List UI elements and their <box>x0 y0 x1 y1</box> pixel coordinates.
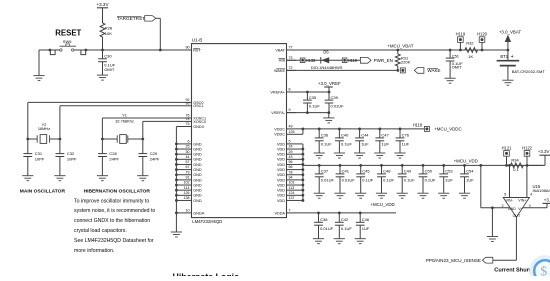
svg-text:system noise, it is recommende: system noise, it is recommended to <box>74 208 155 214</box>
svg-text:HIBERNATION OSCILLATOR: HIBERNATION OSCILLATOR <box>84 188 151 194</box>
resistor R34 <box>511 158 524 173</box>
pin 92 OSC0 <box>182 98 204 105</box>
svg-text:C37: C37 <box>321 169 329 174</box>
svg-text:OSC1: OSC1 <box>193 104 203 108</box>
svg-text:C44: C44 <box>361 133 369 138</box>
svg-text:75: 75 <box>186 122 190 126</box>
svg-text:C39: C39 <box>331 95 339 100</box>
svg-text:C50: C50 <box>425 169 433 174</box>
svg-text:72: 72 <box>289 66 293 70</box>
svg-text:PWR_EN: PWR_EN <box>374 58 393 63</box>
power +3.3V (shunt) <box>527 149 550 165</box>
svg-text:GND: GND <box>193 189 202 193</box>
svg-text:C49: C49 <box>404 169 412 174</box>
svg-text:BAT-CR2032-SMT: BAT-CR2032-SMT <box>512 69 546 74</box>
svg-text:H120: H120 <box>477 32 488 37</box>
svg-text:91: 91 <box>186 175 190 179</box>
wire OUT <box>493 217 517 260</box>
svg-text:+3.0_VREF: +3.0_VREF <box>318 81 341 86</box>
wire +MCU_VBAT <box>287 43 508 50</box>
wire HIB <box>287 59 361 61</box>
svg-text:$: $ <box>540 265 547 276</box>
svg-text:24: 24 <box>289 145 293 149</box>
svg-text:0.1UF: 0.1UF <box>362 177 373 182</box>
svg-text:0.1UF: 0.1UF <box>383 177 394 182</box>
svg-text:94: 94 <box>289 175 293 179</box>
svg-text:137: 137 <box>289 196 295 200</box>
svg-text:79: 79 <box>186 170 190 174</box>
svg-text:VDD: VDD <box>277 173 285 177</box>
svg-text:67: 67 <box>186 165 190 169</box>
crystal Y1 <box>102 113 142 144</box>
svg-text:connect GNDX to the hibernatio: connect GNDX to the hibernation <box>74 218 150 224</box>
svg-text:C54: C54 <box>466 169 474 174</box>
svg-text:77: 77 <box>289 46 293 50</box>
pin 126 VDDC <box>274 130 296 137</box>
svg-text:101: 101 <box>289 181 295 185</box>
svg-text:0.01UF: 0.01UF <box>342 177 356 182</box>
svg-text:GND: GND <box>193 168 202 172</box>
svg-text:0.1: 0.1 <box>513 167 519 172</box>
svg-text:74: 74 <box>186 117 190 121</box>
svg-text:1K: 1K <box>468 54 473 59</box>
ground (op-amp) <box>487 237 498 242</box>
capacitor C32 <box>56 139 78 175</box>
crystal Y2 <box>28 122 60 144</box>
svg-text:C46: C46 <box>362 217 370 222</box>
svg-text:0.1UF: 0.1UF <box>341 226 352 231</box>
power +3.0_VREF <box>318 81 341 92</box>
svg-text:0.1UF: 0.1UF <box>309 104 320 109</box>
svg-text:VDD: VDD <box>277 142 285 146</box>
svg-text:29: 29 <box>289 150 293 154</box>
svg-text:VBAT: VBAT <box>275 48 285 52</box>
capacitor C42 <box>334 213 353 244</box>
svg-text:DIO-1N4448HWS: DIO-1N4448HWS <box>311 65 343 70</box>
svg-text:1UF: 1UF <box>362 226 370 231</box>
svg-text:C36: C36 <box>321 133 329 138</box>
svg-text:H119: H119 <box>456 32 466 37</box>
pins VDD (right) <box>277 140 296 203</box>
ground (VREFA-) <box>323 118 334 123</box>
svg-text:C28: C28 <box>109 151 117 156</box>
capacitor C41 <box>334 165 355 198</box>
svg-text:VDD: VDD <box>277 168 285 172</box>
svg-text:4: 4 <box>530 192 532 196</box>
capacitor C53 <box>438 165 453 198</box>
svg-text:0.01UF: 0.01UF <box>331 104 345 109</box>
pin 77 VBAT <box>275 46 296 53</box>
svg-text:GND: GND <box>193 178 202 182</box>
svg-text:7: 7 <box>289 209 291 213</box>
svg-text:1UF: 1UF <box>445 177 453 182</box>
diode D6 <box>311 50 343 71</box>
svg-text:VDDA: VDDA <box>274 211 285 215</box>
svg-text:more information.: more information. <box>74 248 114 254</box>
svg-text:220K: 220K <box>401 60 411 65</box>
svg-text:30: 30 <box>186 150 190 154</box>
svg-text:VDD: VDD <box>277 153 285 157</box>
svg-text:25: 25 <box>186 145 190 149</box>
wire WAKE <box>287 69 400 72</box>
svg-text:VDDC: VDDC <box>274 133 285 137</box>
svg-text:3: 3 <box>529 204 531 208</box>
marker H122 <box>522 145 533 165</box>
svg-text:0.1UF: 0.1UF <box>341 141 352 146</box>
svg-text:To improve oscillator immunity: To improve oscillator immunity to <box>74 198 149 204</box>
pin 9 VREFA- <box>271 108 296 115</box>
svg-text:VREFA+: VREFA+ <box>270 90 285 94</box>
capacitor C40 <box>334 129 353 158</box>
svg-text:D6: D6 <box>323 50 329 55</box>
svg-text:90: 90 <box>186 46 190 50</box>
svg-text:INA198AIDCKV: INA198AIDCKV <box>533 188 550 193</box>
svg-text:GNDX: GNDX <box>193 125 204 129</box>
svg-text:5: 5 <box>504 192 506 196</box>
flag PWR_EN <box>360 57 392 63</box>
capacitor C30 <box>98 50 116 75</box>
svg-text:VDD: VDD <box>277 199 285 203</box>
switch SW6 <box>50 39 85 54</box>
label MAIN OSCILLATOR <box>20 188 66 194</box>
svg-text:C35: C35 <box>309 95 317 100</box>
svg-text:VDDC: VDDC <box>274 127 285 131</box>
svg-text:24PF: 24PF <box>150 157 160 162</box>
pin 72 WAKE <box>274 66 296 73</box>
svg-text:H121: H121 <box>502 145 513 150</box>
svg-text:56: 56 <box>289 160 293 164</box>
svg-text:PP0/AIN23_MCU_ISENSE: PP0/AIN23_MCU_ISENSE <box>426 258 481 263</box>
svg-text:6: 6 <box>188 140 190 144</box>
watermark logo <box>529 255 550 281</box>
pin 8 VREFA+ <box>270 88 296 95</box>
capacitor C45 <box>355 165 374 198</box>
svg-text:WAKE: WAKE <box>274 69 286 73</box>
svg-text:43: 43 <box>289 155 293 159</box>
label HIBERNATION OSCILLATOR <box>84 188 151 194</box>
resistor R32 <box>465 40 478 59</box>
svg-text:U1-B: U1-B <box>192 38 202 43</box>
resistor R31 <box>395 50 410 70</box>
capacitor C44 <box>354 129 369 158</box>
svg-text:+3.3V: +3.3V <box>544 198 550 203</box>
flag TARGETRST <box>117 16 160 50</box>
svg-text:+3.0_VBAT: +3.0_VBAT <box>499 29 522 34</box>
svg-text:VDD: VDD <box>277 189 285 193</box>
svg-text:GND: GND <box>193 158 202 162</box>
wire VIN+ <box>527 165 532 197</box>
capacitor C46 <box>355 213 370 244</box>
wire +MCU_VDD (VDDA) rail <box>296 202 396 215</box>
svg-text:5: 5 <box>289 140 291 144</box>
capacitor C48 <box>376 165 395 198</box>
flag MCU_ISENSE <box>426 257 493 263</box>
marker H116 <box>342 58 358 63</box>
svg-text:C30: C30 <box>104 53 112 58</box>
junction dots RESET <box>49 49 162 52</box>
svg-text:1UF: 1UF <box>402 141 410 146</box>
capacitor C36 <box>314 129 333 158</box>
battery BT1 <box>497 50 546 80</box>
svg-text:GND: GND <box>193 183 202 187</box>
marker H121 <box>502 145 513 165</box>
capacitor C47 <box>374 129 389 158</box>
svg-text:MAIN OSCILLATOR: MAIN OSCILLATOR <box>20 188 66 194</box>
svg-text:57: 57 <box>186 160 190 164</box>
svg-text:GND: GND <box>193 199 202 203</box>
svg-text:124: 124 <box>289 191 295 195</box>
svg-text:VIN-: VIN- <box>506 199 514 203</box>
pin 93 OSC1 <box>182 101 204 108</box>
svg-text:C42: C42 <box>341 217 349 222</box>
svg-text:XOSC0: XOSC0 <box>193 120 206 124</box>
svg-text:9: 9 <box>289 108 291 112</box>
svg-text:V+: V+ <box>518 207 523 211</box>
svg-text:+MCU_VDDC: +MCU_VDDC <box>434 126 461 131</box>
svg-text:R28: R28 <box>105 26 113 31</box>
svg-text:+: + <box>511 54 514 60</box>
label RESET <box>55 28 81 37</box>
capacitor C50 <box>417 165 436 198</box>
capacitor C37 <box>314 165 335 198</box>
svg-text:1UF: 1UF <box>466 177 474 182</box>
capacitor C29 <box>138 139 160 175</box>
wire XOSC0 <box>143 121 182 139</box>
capacitor C39 <box>325 92 344 113</box>
wire +MCU_VDD rail <box>303 158 543 166</box>
pin 7 VDDA <box>274 209 296 216</box>
svg-text:VDD: VDD <box>277 183 285 187</box>
power +3.0_VBAT <box>499 29 522 50</box>
marker H120 <box>477 32 488 50</box>
svg-text:VDD: VDD <box>277 194 285 198</box>
wire +MCU_VDDC rail <box>296 127 424 134</box>
svg-text:OMIT: OMIT <box>104 67 115 72</box>
capacitor C76 <box>394 129 409 158</box>
svg-text:C45: C45 <box>362 169 370 174</box>
svg-text:VDD: VDD <box>277 158 285 162</box>
wire VIN- <box>504 164 511 198</box>
svg-text:113: 113 <box>289 186 295 190</box>
op-amp U15 <box>503 184 550 218</box>
wire op-amp GND (pin 2) <box>481 165 510 236</box>
svg-text:RST: RST <box>193 48 201 52</box>
wire VDD bus <box>296 144 304 202</box>
svg-text:73: 73 <box>289 56 293 60</box>
svg-text:0.1UF: 0.1UF <box>425 177 436 182</box>
ground (C32) <box>54 176 65 181</box>
capacitor C49 <box>397 165 416 198</box>
svg-text:H116: H116 <box>348 58 358 63</box>
svg-text:VDD: VDD <box>277 147 285 151</box>
pin 75 GNDX <box>182 122 205 129</box>
svg-text:+MCU_VBAT: +MCU_VBAT <box>387 43 413 48</box>
capacitor C31 <box>23 139 45 175</box>
wire VREFA- <box>287 111 331 117</box>
svg-text:10K: 10K <box>105 31 112 36</box>
op-amp U1-B (MCU IC body) <box>192 38 287 225</box>
capacitor C38 <box>313 213 334 244</box>
svg-text:C40: C40 <box>341 133 349 138</box>
svg-text:GND: GND <box>193 153 202 157</box>
wire RESET net <box>39 50 182 75</box>
svg-text:VDD: VDD <box>277 163 285 167</box>
ground (C29) <box>137 176 148 181</box>
svg-text:C76: C76 <box>402 133 410 138</box>
ground (C30) <box>97 75 108 80</box>
svg-text:SW6: SW6 <box>63 39 72 44</box>
svg-text:C41: C41 <box>342 169 350 174</box>
marker WAKE pad <box>400 68 405 73</box>
node XOSC junctions <box>101 138 144 141</box>
svg-text:93: 93 <box>186 101 190 105</box>
svg-text:TARGETRST: TARGETRST <box>117 16 145 21</box>
svg-text:GNDA: GNDA <box>193 211 204 215</box>
svg-text:R34: R34 <box>511 158 519 163</box>
label Current Shunt <box>494 268 532 274</box>
ground (chip GND bus) <box>171 232 182 237</box>
wire XOSC1 <box>102 118 182 139</box>
svg-text:44: 44 <box>186 155 190 159</box>
wire VREFA+ <box>287 91 331 94</box>
wire GND bus <box>175 127 182 232</box>
svg-text:Hibernate Logic: Hibernate Logic <box>173 272 240 276</box>
svg-text:VREFA-: VREFA- <box>271 111 285 115</box>
svg-text:0.01UF: 0.01UF <box>321 177 335 182</box>
svg-text:C32: C32 <box>67 151 75 156</box>
ground (C28) <box>97 176 108 181</box>
ground (reset switch) <box>33 76 44 81</box>
svg-text:See LM4F232H5QD Datasheet for: See LM4F232H5QD Datasheet for <box>74 238 154 244</box>
capacitor C28 <box>98 139 120 175</box>
svg-text:+3.3V: +3.3V <box>538 149 550 154</box>
svg-text:126: 126 <box>289 130 295 134</box>
svg-text:C29: C29 <box>150 151 158 156</box>
note text (oscillator) <box>74 198 155 254</box>
node VBAT junctions <box>396 49 509 52</box>
svg-text:8: 8 <box>289 88 291 92</box>
ground (C51) <box>445 78 456 83</box>
svg-text:C48: C48 <box>383 169 391 174</box>
capacitor C51 <box>446 50 463 78</box>
power +3.3V <box>96 2 109 23</box>
svg-text:0.1UF: 0.1UF <box>404 177 415 182</box>
node OSC junctions <box>26 138 61 141</box>
svg-text:+MCU_VDD: +MCU_VDD <box>370 202 394 207</box>
svg-text:66: 66 <box>289 165 293 169</box>
svg-text:C47: C47 <box>381 133 389 138</box>
marker H132 <box>300 58 316 63</box>
svg-text:102: 102 <box>184 181 190 185</box>
svg-text:LM4F232H5QD: LM4F232H5QD <box>192 219 222 224</box>
svg-text:10: 10 <box>186 209 190 213</box>
pin 76 XOSC1 <box>182 114 206 121</box>
svg-text:+MCU_VDD: +MCU_VDD <box>454 158 478 163</box>
svg-text:10PF: 10PF <box>35 157 45 162</box>
svg-text:WAKE: WAKE <box>427 68 440 73</box>
svg-text:16MHz: 16MHz <box>38 126 50 131</box>
capacitor C35 <box>303 92 320 113</box>
svg-text:0.01UF: 0.01UF <box>320 226 334 231</box>
svg-text:138: 138 <box>184 196 190 200</box>
svg-text:78: 78 <box>289 170 293 174</box>
svg-text:1UF: 1UF <box>361 141 369 146</box>
svg-text:R32: R32 <box>466 40 474 45</box>
svg-text:0.1UF: 0.1UF <box>321 141 332 146</box>
pin 49 VDDC <box>274 125 296 132</box>
svg-text:24PF: 24PF <box>109 157 119 162</box>
svg-text:GND: GND <box>193 194 202 198</box>
svg-text:C53: C53 <box>445 169 453 174</box>
svg-text:H118: H118 <box>413 123 423 128</box>
flag WAKE <box>414 68 440 74</box>
svg-text:GND: GND <box>193 163 202 167</box>
svg-text:H132: H132 <box>306 58 317 63</box>
ground (C31) <box>22 176 33 181</box>
svg-text:VDD: VDD <box>277 178 285 182</box>
svg-text:OMIT: OMIT <box>452 65 463 70</box>
pin 90 RST <box>182 46 201 53</box>
svg-text:Y1: Y1 <box>122 113 127 118</box>
svg-text:BT1: BT1 <box>500 54 508 59</box>
svg-text:GND: GND <box>193 142 202 146</box>
svg-text:2: 2 <box>502 204 504 208</box>
wire OSC1 <box>60 106 182 139</box>
svg-text:crystal load capacitors.: crystal load capacitors. <box>74 228 127 234</box>
svg-text:Current Shunt: Current Shunt <box>494 268 532 274</box>
marker H119 <box>456 32 466 50</box>
svg-text:RESET: RESET <box>55 28 81 37</box>
pin 10 GNDA <box>182 209 205 216</box>
svg-text:GND: GND <box>193 173 202 177</box>
label Hibernate Logic <box>173 272 240 281</box>
svg-text:HIB: HIB <box>279 59 286 63</box>
capacitor C54 <box>459 165 474 198</box>
svg-text:GND: GND <box>193 147 202 151</box>
pins GND (left) <box>182 140 202 203</box>
svg-text:32.768Khz: 32.768Khz <box>115 119 134 124</box>
svg-text:114: 114 <box>184 186 190 190</box>
marker H118 <box>413 123 462 132</box>
svg-text:49: 49 <box>289 125 293 129</box>
svg-text:VIN+: VIN+ <box>518 199 526 203</box>
pin 73 HIB <box>278 56 296 63</box>
svg-text:C31: C31 <box>35 151 43 156</box>
svg-text:C38: C38 <box>320 217 328 222</box>
svg-text:+3.3V: +3.3V <box>96 2 109 7</box>
wire op-amp V+ (pin 3) <box>523 198 550 208</box>
svg-text:126: 126 <box>184 191 190 195</box>
resistor R28 <box>100 23 113 50</box>
svg-text:10PF: 10PF <box>67 157 77 162</box>
svg-text:1UF: 1UF <box>381 141 389 146</box>
svg-text:H122: H122 <box>522 145 533 150</box>
pin 74 XOSC0 <box>182 117 206 124</box>
ground (BT1) <box>502 80 513 85</box>
wire OSC0 <box>28 102 182 139</box>
svg-text:C51: C51 <box>452 54 460 59</box>
